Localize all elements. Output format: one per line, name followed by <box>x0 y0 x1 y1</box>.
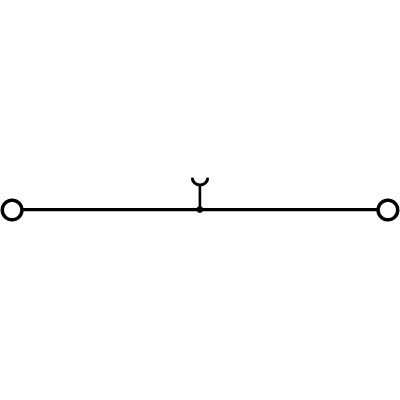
junction dot <box>196 206 203 213</box>
wire <box>12 208 388 211</box>
terminal circle right <box>378 200 398 220</box>
test tap stem <box>199 185 202 210</box>
terminal circle left <box>2 200 22 220</box>
test tap cup <box>193 179 208 185</box>
